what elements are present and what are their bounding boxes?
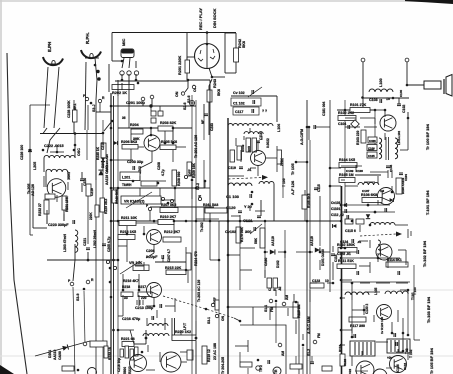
junction bbox=[112, 259, 115, 262]
switch S2 contact bbox=[192, 85, 195, 88]
capacitor C205 bbox=[102, 244, 106, 246]
inductor L100 coil bbox=[369, 89, 393, 92]
wire bbox=[135, 265, 144, 267]
resistor R108 bbox=[362, 198, 382, 203]
wire bbox=[247, 340, 249, 352]
wire R.PH left lead bbox=[85, 62, 86, 130]
svg-text:R229 3K3: R229 3K3 bbox=[104, 199, 108, 214]
earth/chassis symbol bbox=[189, 100, 194, 105]
wire E.PH left lead bbox=[44, 67, 48, 128]
wire bbox=[370, 171, 388, 173]
wire bbox=[351, 356, 353, 366]
junction bbox=[121, 79, 124, 82]
capacitor C118 bbox=[256, 141, 260, 143]
wire bbox=[102, 158, 104, 172]
wire bbox=[138, 274, 140, 290]
wire main bus A right bbox=[113, 96, 115, 374]
junction bbox=[195, 337, 198, 340]
capacitor C204b body bbox=[151, 118, 156, 123]
junction bbox=[117, 329, 120, 332]
svg-text:R214 470: R214 470 bbox=[194, 251, 198, 266]
wire bbox=[302, 334, 304, 340]
wire bbox=[355, 370, 368, 372]
junction bbox=[110, 187, 113, 190]
inductor L103 bbox=[358, 182, 379, 185]
svg-text:10: 10 bbox=[325, 279, 329, 283]
wire bbox=[310, 282, 317, 284]
svg-text:TkWH: TkWH bbox=[122, 183, 132, 187]
wire bbox=[151, 151, 153, 162]
svg-text:OFF: OFF bbox=[188, 169, 192, 176]
wire bbox=[50, 151, 64, 153]
wire bbox=[234, 318, 240, 321]
wire MIC lead 1 bbox=[122, 58, 124, 68]
wire bbox=[405, 250, 407, 265]
junction bbox=[407, 334, 410, 337]
wire bbox=[395, 224, 408, 226]
svg-text:R223: R223 bbox=[128, 366, 132, 374]
junction bbox=[227, 254, 230, 257]
wire bbox=[257, 141, 259, 150]
resistor R112 bbox=[267, 278, 272, 288]
wire bbox=[257, 166, 259, 176]
wire bbox=[360, 117, 375, 119]
resistor R209 bbox=[187, 162, 192, 176]
wire dashed tuning link bbox=[360, 234, 396, 236]
junction bbox=[391, 191, 394, 194]
capacitor C125 bbox=[357, 250, 359, 254]
svg-text:VR K1410(2): VR K1410(2) bbox=[124, 200, 144, 204]
wire bbox=[180, 330, 182, 335]
resistor R229 bbox=[100, 198, 105, 212]
wire bbox=[413, 265, 415, 340]
wire bbox=[275, 303, 277, 343]
junction bbox=[367, 204, 370, 207]
wire bbox=[239, 352, 241, 362]
junction bbox=[143, 233, 146, 236]
wire R.PH right lead bbox=[95, 58, 97, 100]
wire bbox=[128, 80, 130, 106]
wire bbox=[153, 298, 155, 306]
wire bbox=[134, 343, 146, 345]
capacitor C124b bbox=[399, 173, 403, 175]
wire bbox=[185, 247, 187, 253]
wire bbox=[360, 257, 378, 259]
wire bbox=[228, 254, 240, 256]
wire bbox=[149, 211, 151, 221]
resistor R114 bbox=[386, 262, 408, 267]
wire bbox=[260, 200, 262, 216]
wire bbox=[276, 146, 278, 150]
junction bbox=[211, 76, 214, 79]
wire bbox=[309, 290, 311, 302]
wire osc top row bbox=[40, 133, 104, 135]
transformer L205 primary bbox=[44, 155, 75, 158]
wire bbox=[293, 294, 295, 302]
wire bbox=[32, 190, 34, 228]
wire DIN stem bbox=[206, 33, 208, 69]
svg-text:C100: C100 bbox=[399, 89, 403, 97]
wire bbox=[227, 307, 229, 325]
svg-text:.82: .82 bbox=[278, 286, 282, 291]
resistor R232 bbox=[44, 200, 49, 214]
wire bbox=[122, 295, 124, 316]
resistor 560 bbox=[141, 181, 157, 186]
svg-text:S2-6: S2-6 bbox=[187, 96, 191, 103]
resistor R219 bbox=[202, 346, 207, 364]
wire bbox=[130, 149, 132, 160]
resistor R233 bbox=[104, 346, 108, 358]
resistor R213 bbox=[118, 235, 135, 240]
transformer IPT core 2 bbox=[174, 318, 176, 340]
transistor bottom-left partial bbox=[88, 368, 97, 374]
resistor R170 bbox=[236, 227, 241, 243]
junction bbox=[392, 97, 395, 100]
wire main bus B bbox=[227, 118, 229, 374]
wire bbox=[153, 245, 155, 253]
wire bbox=[157, 180, 166, 182]
svg-text:C123: C123 bbox=[312, 279, 320, 283]
resistor R240 bbox=[112, 190, 117, 203]
capacitor C114 bbox=[331, 254, 335, 256]
wire E.PH to osc bbox=[43, 128, 47, 134]
svg-text:R219 12: R219 12 bbox=[207, 349, 211, 362]
transistor bottom partial bbox=[273, 367, 281, 374]
svg-text:R208 560: R208 560 bbox=[177, 172, 181, 186]
svg-text:S1-2: S1-2 bbox=[307, 349, 311, 356]
wire bbox=[275, 290, 277, 296]
capacitor C406 body bbox=[368, 137, 377, 143]
junction bbox=[185, 220, 188, 223]
svg-text:C406: C406 bbox=[369, 139, 376, 143]
junction bbox=[251, 203, 254, 206]
transistor Tr204 bbox=[130, 355, 147, 372]
capacitor C219 body bbox=[86, 184, 91, 196]
svg-text:220K: 220K bbox=[89, 212, 93, 220]
capacitor C113b bbox=[347, 215, 349, 219]
wire bbox=[397, 349, 399, 352]
junction bbox=[374, 211, 377, 214]
wire bbox=[295, 356, 297, 364]
wire bbox=[396, 282, 408, 284]
wire bbox=[264, 221, 266, 278]
wire bbox=[363, 305, 365, 315]
resistor bottom b bbox=[290, 364, 302, 369]
wire bbox=[195, 341, 197, 374]
junction bbox=[56, 151, 59, 154]
wire bus B3 bbox=[218, 240, 220, 374]
junction bbox=[340, 297, 343, 300]
junction bbox=[227, 220, 230, 223]
svg-text:C221: C221 bbox=[83, 238, 87, 246]
junction R.PH bbox=[94, 64, 97, 67]
wire bbox=[376, 341, 388, 343]
wire bbox=[188, 79, 210, 81]
wire bbox=[278, 251, 285, 253]
junction bbox=[29, 149, 32, 152]
wire bbox=[319, 221, 321, 246]
svg-text:C205 4.7μ: C205 4.7μ bbox=[107, 237, 111, 252]
capacitor C132b bbox=[394, 333, 396, 337]
wire bbox=[172, 128, 174, 140]
junction bus A bbox=[111, 120, 114, 123]
svg-text:FM: FM bbox=[270, 307, 274, 312]
wire bbox=[212, 76, 225, 78]
svg-text:L201: L201 bbox=[122, 176, 130, 180]
svg-text:1v R120 180: 1v R120 180 bbox=[380, 316, 384, 334]
wire bbox=[87, 252, 89, 260]
wire bbox=[117, 80, 119, 96]
wire bbox=[121, 74, 123, 80]
svg-text:R202 1K: R202 1K bbox=[112, 91, 127, 95]
wire bbox=[400, 289, 408, 291]
capacitor C112 bbox=[345, 209, 347, 213]
junction bbox=[344, 109, 347, 112]
wire bbox=[181, 361, 187, 363]
svg-text:L205: L205 bbox=[33, 162, 37, 170]
arrow tuning gang bbox=[262, 175, 268, 180]
svg-text:R210 2K7: R210 2K7 bbox=[160, 215, 176, 219]
resistor R115 bbox=[293, 302, 298, 318]
junction bbox=[135, 79, 138, 82]
svg-text:R243: R243 bbox=[213, 79, 217, 88]
junction bbox=[340, 204, 343, 207]
junction bbox=[141, 351, 144, 354]
capacitor C1 102 box bbox=[231, 98, 261, 106]
junction bbox=[369, 224, 372, 227]
resistor R208 bbox=[172, 170, 177, 186]
wire left branch bbox=[29, 105, 31, 235]
wire bbox=[146, 369, 155, 371]
diode D01 bbox=[351, 120, 359, 128]
wire S3 down 2 bbox=[84, 291, 85, 345]
pot segment b bbox=[125, 346, 129, 358]
switch S3-7 contact R bbox=[98, 99, 101, 102]
wire bbox=[341, 344, 345, 346]
wire bbox=[402, 318, 404, 352]
junction bbox=[109, 267, 112, 270]
wire jack stub bbox=[135, 61, 137, 68]
wire bbox=[351, 300, 353, 337]
capacitor C1 103 bbox=[250, 194, 252, 198]
capacitor C136 body bbox=[396, 342, 398, 346]
svg-text:T 102: T 102 bbox=[409, 349, 413, 358]
wire E.PH chord bbox=[47, 63, 60, 65]
junction bbox=[264, 251, 267, 254]
wire bbox=[45, 172, 47, 187]
wire bbox=[209, 80, 211, 103]
resistor R235 bbox=[101, 143, 106, 158]
resistor R103 bbox=[361, 130, 366, 143]
junction bbox=[195, 337, 198, 340]
svg-text:R108 6K8: R108 6K8 bbox=[361, 193, 377, 197]
wire bus E bbox=[95, 112, 97, 374]
wire bbox=[239, 215, 241, 221]
switch contact bbox=[170, 199, 173, 202]
wire bbox=[56, 195, 58, 202]
wire bbox=[386, 367, 392, 369]
capacitor C121 bbox=[257, 216, 261, 218]
capacitor C104 bbox=[348, 125, 350, 129]
wire bbox=[252, 307, 254, 325]
wire bbox=[63, 214, 65, 221]
wire bbox=[33, 227, 47, 229]
capacitor C117 box bbox=[233, 107, 259, 115]
svg-text:I.P.T: I.P.T bbox=[183, 322, 187, 330]
potentiometer VR 10K bbox=[120, 261, 149, 274]
capacitor C500 body bbox=[356, 219, 364, 224]
capacitor C226 bbox=[28, 150, 32, 152]
capacitor C221 bbox=[86, 248, 90, 250]
resistor R220 bbox=[172, 335, 196, 341]
capacitor stub bbox=[204, 114, 208, 116]
svg-text:AM: AM bbox=[285, 295, 289, 300]
capacitor C105 body bbox=[367, 152, 377, 158]
microphone MIC bbox=[121, 49, 134, 58]
junction bbox=[306, 161, 309, 164]
wire bbox=[235, 33, 237, 48]
svg-text:OSC: OSC bbox=[77, 148, 81, 156]
junction bbox=[150, 127, 153, 130]
wire bbox=[355, 165, 357, 172]
svg-text:R110 150K: R110 150K bbox=[337, 243, 355, 247]
wire bbox=[81, 183, 83, 192]
junction bbox=[153, 220, 156, 223]
wire MIC frame bottom bbox=[112, 60, 122, 62]
junction bbox=[42, 149, 45, 152]
junction bbox=[110, 159, 113, 162]
jack contact bbox=[134, 71, 138, 75]
junction AGC bbox=[308, 126, 311, 129]
svg-text:Tr-103 BF 194: Tr-103 BF 194 bbox=[426, 296, 431, 323]
svg-text:C219: C219 bbox=[90, 188, 94, 196]
wire bbox=[240, 269, 252, 271]
junction bbox=[153, 305, 156, 308]
wire row y205 right bbox=[341, 204, 390, 206]
wire antenna feed bbox=[407, 84, 424, 86]
wire bbox=[150, 106, 152, 111]
wire bbox=[143, 262, 145, 270]
junction bbox=[309, 251, 312, 254]
capacitor Cv102 bbox=[252, 90, 254, 94]
wire bbox=[231, 215, 240, 217]
svg-text:R211 10K: R211 10K bbox=[121, 216, 137, 220]
svg-text:R203 82K: R203 82K bbox=[160, 121, 177, 125]
junction DIN feed bbox=[206, 31, 209, 34]
svg-text:C213 100μ: C213 100μ bbox=[135, 306, 154, 310]
junction bbox=[340, 247, 343, 250]
wire bbox=[130, 330, 134, 344]
wire bbox=[361, 351, 363, 356]
wire bbox=[150, 128, 152, 135]
wire bbox=[122, 274, 124, 290]
wire bbox=[225, 72, 236, 74]
svg-text:C112 ,02: C112 ,02 bbox=[331, 213, 344, 217]
wire row y258 right bbox=[341, 257, 400, 259]
wire bbox=[345, 185, 358, 187]
transistor Tr101 bbox=[378, 188, 395, 205]
junction bbox=[218, 259, 221, 262]
resistor R117 bbox=[349, 317, 366, 322]
resistor R202 bbox=[112, 85, 134, 90]
wire bbox=[327, 282, 333, 284]
transistor Tr102 bbox=[376, 244, 392, 260]
switch S2-2 contact b bbox=[198, 197, 201, 200]
junction bbox=[209, 220, 212, 223]
capacitor bottom d bbox=[268, 360, 270, 364]
svg-text:FM: FM bbox=[317, 333, 321, 338]
svg-text:T 106: T 106 bbox=[282, 178, 286, 187]
diode D102b bbox=[390, 198, 394, 202]
junction bbox=[204, 180, 207, 183]
svg-text:C207 4.7: C207 4.7 bbox=[167, 249, 171, 262]
wire bbox=[284, 230, 286, 300]
earphone E.PH element bbox=[52, 60, 55, 65]
junction bbox=[363, 309, 366, 312]
wire bbox=[151, 99, 153, 106]
svg-text:S3-9: S3-9 bbox=[76, 294, 80, 301]
wire bbox=[377, 200, 379, 205]
wire bbox=[180, 351, 187, 353]
svg-text:C136: C136 bbox=[396, 364, 400, 372]
svg-text:C208: C208 bbox=[157, 162, 161, 170]
wire bbox=[205, 187, 210, 189]
junction bbox=[87, 259, 90, 262]
svg-text:C222 .0015: C222 .0015 bbox=[44, 144, 64, 148]
wire output loop outer bbox=[228, 307, 299, 374]
wire bbox=[204, 181, 206, 188]
capacitor C103 bbox=[380, 99, 382, 103]
wire bbox=[63, 210, 65, 221]
capacitor C203 bbox=[133, 166, 135, 170]
junction bbox=[73, 149, 76, 152]
resistor R215 bbox=[166, 270, 186, 275]
svg-text:C103: C103 bbox=[369, 98, 378, 102]
resistor R214 bbox=[186, 253, 191, 270]
wire bbox=[323, 251, 330, 253]
wire bbox=[341, 179, 345, 181]
junction bbox=[132, 180, 135, 183]
transistor Tr100 bbox=[380, 115, 396, 131]
wire bbox=[172, 150, 174, 162]
junction bbox=[174, 187, 177, 190]
wire bbox=[73, 100, 75, 105]
wire to switch S2 bbox=[185, 80, 188, 92]
svg-text:R216 4K7: R216 4K7 bbox=[123, 279, 139, 283]
svg-text:A.F 126: A.F 126 bbox=[290, 180, 295, 195]
wire bbox=[135, 74, 137, 80]
wire bbox=[228, 175, 244, 177]
svg-text:C226 100: C226 100 bbox=[20, 145, 24, 160]
wire bbox=[397, 310, 399, 322]
junction bbox=[340, 329, 343, 332]
svg-text:5600: 5600 bbox=[123, 367, 127, 374]
svg-text:Tr 105 BF 194: Tr 105 BF 194 bbox=[429, 347, 434, 374]
wire bbox=[370, 109, 385, 111]
wire bbox=[250, 167, 256, 169]
diode D103 bbox=[333, 224, 337, 228]
wire bbox=[138, 295, 140, 306]
svg-text:SK5: SK5 bbox=[247, 146, 251, 152]
junction bbox=[74, 144, 77, 147]
svg-text:270K: 270K bbox=[280, 158, 284, 166]
wire bbox=[247, 368, 249, 374]
wire bbox=[235, 62, 237, 73]
capacitor C108 bbox=[386, 166, 390, 168]
wire bbox=[126, 240, 128, 262]
junction bbox=[227, 306, 230, 309]
resistor R211 bbox=[119, 221, 136, 226]
